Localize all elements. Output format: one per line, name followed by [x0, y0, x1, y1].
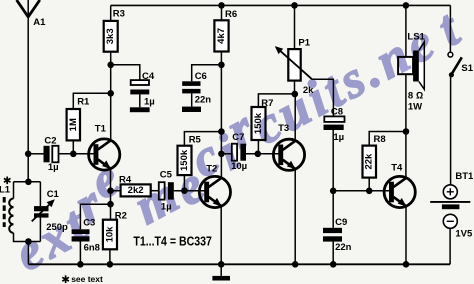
ground below C6: [182, 107, 201, 112]
node rail C9: [330, 261, 337, 268]
svg-text:S1: S1: [461, 63, 473, 74]
wire C5 to T2 base: [174, 190, 205, 192]
resistor R4: [119, 174, 151, 196]
svg-text:R2: R2: [115, 210, 127, 221]
node R1 bottom: [70, 151, 77, 158]
wire switch column: [449, 5, 451, 52]
wire R4 left lead: [111, 190, 121, 192]
wire R5 top to collector node: [184, 132, 221, 146]
node R3 C4: [107, 62, 114, 69]
svg-text:22n: 22n: [195, 94, 212, 105]
wire R1 bottom lead: [72, 140, 74, 153]
svg-text:T1: T1: [95, 124, 107, 135]
wire L1 C1 bottom: [14, 233, 41, 242]
wire R6 bottom to T2 collector: [220, 52, 222, 178]
svg-text:C6: C6: [195, 71, 207, 82]
wire T1 emitter down to R2: [110, 169, 112, 220]
svg-text:1µ: 1µ: [48, 162, 59, 173]
wire node to C6: [192, 65, 222, 82]
wire T2 emitter: [220, 207, 222, 265]
capacitor C8: [324, 107, 345, 143]
node R1 top: [107, 90, 114, 97]
svg-text:T4: T4: [391, 163, 403, 174]
svg-text:BT1: BT1: [455, 171, 474, 182]
wire C3 bottom lead: [79, 242, 81, 265]
node R8 bottom: [366, 188, 373, 195]
wire T4 base: [333, 190, 389, 192]
wire C8 bottom lead: [332, 130, 334, 191]
node L1 C1 bottom: [25, 238, 32, 245]
wire C2 left lead: [28, 153, 43, 155]
transistor T3: [273, 123, 304, 170]
wire T4 emitter: [405, 206, 407, 264]
svg-text:1µ: 1µ: [333, 132, 344, 143]
ground below C4: [130, 107, 150, 112]
svg-text:see text: see text: [71, 274, 103, 284]
resistor R8: [363, 134, 386, 177]
wire P1 bottom lead: [294, 81, 296, 94]
svg-text:T1...T4 = BC337: T1...T4 = BC337: [133, 234, 212, 249]
inductor L1: [0, 177, 14, 234]
svg-text:R8: R8: [374, 134, 386, 145]
wire S1 to battery: [450, 75, 452, 185]
svg-text:C4: C4: [142, 71, 155, 82]
svg-text:1V5: 1V5: [455, 228, 473, 239]
resistor R2: [103, 210, 127, 249]
capacitor C9: [323, 217, 352, 253]
node R6 C6: [218, 62, 225, 69]
wire node to C4: [111, 65, 140, 80]
wire LS1 to T4 collector: [405, 5, 407, 178]
node top rail P1: [291, 2, 298, 9]
svg-text:P1: P1: [298, 38, 310, 49]
capacitor C4: [130, 71, 155, 107]
variable capacitor C1: [32, 189, 68, 233]
wire R3 bottom to T1 collector: [110, 52, 112, 141]
capacitor C5: [159, 169, 174, 212]
node C8 C9 base: [330, 188, 337, 195]
resistor R3: [104, 8, 125, 51]
ground symbol below T2 emitter: [212, 276, 230, 281]
capacitor C6: [182, 71, 211, 105]
wire R5 bottom lead: [183, 175, 185, 191]
wire R8 top: [369, 132, 406, 146]
wire R8 bottom lead: [368, 178, 370, 191]
node R4 emitter: [107, 187, 114, 194]
wire T3 collector: [294, 94, 296, 141]
wire R7 bottom lead: [257, 140, 259, 154]
wire battery to rail: [449, 228, 451, 264]
node C3 branch: [107, 201, 114, 208]
wire C1 top lead: [39, 182, 41, 206]
wire R1 top to node: [73, 93, 110, 109]
node top rail LS1: [403, 2, 410, 9]
wire C7 to T3 base: [246, 153, 279, 155]
svg-text:1W: 1W: [408, 101, 422, 112]
resistor R6: [214, 9, 237, 52]
wire T2 ground lead: [220, 264, 222, 276]
capacitor C2: [44, 136, 59, 174]
wire C2 right lead to T1 base: [59, 153, 95, 155]
wire node to C3: [80, 204, 110, 229]
node rail T2: [218, 261, 225, 268]
wire R7 top: [258, 94, 294, 107]
node rail C3: [77, 261, 84, 268]
wire top supply rail: [111, 4, 451, 6]
node C2 antenna: [25, 151, 32, 158]
antenna A1: [17, 0, 40, 17]
resistor R1: [67, 97, 90, 141]
svg-text:A1: A1: [33, 17, 46, 28]
resistor R5: [178, 135, 202, 175]
wire P1 top lead: [294, 5, 296, 49]
wire C9 bottom lead: [332, 242, 334, 265]
svg-text:R3: R3: [113, 8, 125, 19]
svg-text:10k: 10k: [104, 226, 115, 243]
svg-text:L1: L1: [0, 185, 11, 196]
wire C9 top lead: [332, 191, 334, 228]
node rail T4: [403, 261, 410, 268]
node L1 C1 top: [25, 179, 32, 186]
svg-text:3k3: 3k3: [105, 28, 116, 44]
svg-text:4k7: 4k7: [216, 28, 227, 44]
svg-text:C1: C1: [47, 189, 60, 200]
node rail R2: [107, 261, 114, 268]
node C7 branch: [218, 151, 225, 158]
transistor T4: [384, 163, 415, 208]
svg-text:C2: C2: [44, 136, 56, 147]
wire bottom ground rail: [28, 263, 450, 265]
wire R4 to C5: [151, 190, 159, 192]
transistor T1: [89, 124, 120, 170]
node R5 collector: [218, 128, 225, 135]
svg-text:C9: C9: [335, 217, 347, 228]
svg-text:22k: 22k: [364, 153, 375, 170]
wire R2 bottom lead: [109, 249, 111, 264]
potentiometer P1: [275, 38, 314, 96]
wire C1 bottom lead: [39, 218, 41, 242]
node R7 bottom: [254, 151, 261, 158]
wire node to C7: [221, 153, 231, 155]
resistor R7: [252, 98, 274, 140]
node top rail R6: [218, 2, 225, 9]
svg-text:22n: 22n: [335, 242, 352, 253]
battery BT1: [430, 171, 474, 239]
wire R3 top lead: [110, 5, 112, 21]
wire tank to ground rail: [27, 242, 29, 265]
note see text: [62, 274, 103, 284]
capacitor C3: [72, 218, 100, 254]
node C5 R5 base: [181, 187, 188, 194]
wire R6 top lead: [221, 5, 223, 20]
wire T3 emitter: [294, 170, 296, 264]
loudspeaker LS1: [398, 32, 425, 113]
wire antenna lead down: [27, 0, 29, 182]
svg-text:1µ: 1µ: [144, 96, 155, 107]
svg-text:R6: R6: [225, 9, 237, 20]
wire P1 wiper to C8: [312, 79, 333, 116]
switch S1: [448, 52, 474, 77]
node rail T3: [292, 261, 299, 268]
capacitor C7: [231, 132, 247, 172]
wire C6 to ground: [191, 93, 193, 106]
svg-text:8 Ω: 8 Ω: [408, 91, 423, 102]
svg-text:R1: R1: [77, 97, 90, 108]
transistor T2: [199, 164, 230, 208]
wire L1 C1 top: [14, 181, 41, 183]
node R8 LS1 collector: [403, 128, 410, 135]
node P1 R7 T3: [292, 91, 299, 98]
svg-text:1M: 1M: [68, 118, 79, 131]
wire C4 to ground: [139, 94, 141, 107]
